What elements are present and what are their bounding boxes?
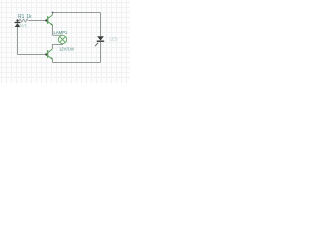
- junction node Q1 base: [45, 19, 47, 21]
- resistor R1: [18, 19, 29, 22]
- label LED: [110, 37, 118, 42]
- svg-text:LAMP1: LAMP1: [54, 30, 68, 35]
- svg-text:5V1: 5V1: [20, 23, 28, 28]
- svg-text:12V/1W: 12V/1W: [59, 47, 74, 52]
- svg-text:R1: R1: [18, 14, 25, 20]
- transistor Q2: [48, 49, 53, 59]
- wire Q2 base: [18, 54, 47, 56]
- arrow Q1 emitter: [50, 23, 52, 25]
- wire left vertical D1 to Q2 base: [17, 27, 19, 55]
- wire top rail: [53, 12, 101, 14]
- LED D2: [95, 36, 104, 46]
- junction node Q2 base: [45, 53, 47, 55]
- arrow Q2 emitter: [50, 57, 52, 59]
- wire bottom rail: [53, 62, 101, 64]
- svg-text:LED: LED: [110, 37, 118, 42]
- wire Q1 emitter down: [52, 25, 54, 35]
- junction node R1/D1: [16, 19, 18, 21]
- label D1 value: [20, 23, 28, 28]
- value 12V: [59, 47, 74, 52]
- transistor Q1: [48, 15, 53, 25]
- wire Q2 emitter to bottom rail: [52, 59, 54, 63]
- label LAMP1: [54, 30, 68, 35]
- zener diode D1: [15, 21, 21, 28]
- wire LED cathode down: [100, 42, 102, 63]
- wire Q1 collector up: [52, 13, 54, 15]
- wire jog to lamp top: [53, 34, 63, 36]
- lamp LP1: [58, 35, 66, 43]
- junction node Q1 collector corner: [52, 12, 54, 14]
- svg-text:1k: 1k: [26, 14, 32, 20]
- wire lamp bottom jog: [53, 44, 63, 49]
- wire right drop to LED: [100, 13, 102, 37]
- wire Q1 base: [29, 20, 47, 22]
